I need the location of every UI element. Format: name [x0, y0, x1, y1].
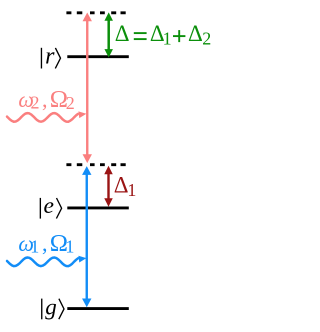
label |r> : right angle bracket	[55, 48, 60, 69]
green total detuning double arrow	[104, 12, 113, 57]
svg-text:Δ: Δ	[115, 21, 130, 46]
pink two-photon transition double arrow (omega2 beam)	[83, 13, 92, 164]
label |g> : ket bar	[41, 299, 43, 320]
svg-text:,: ,	[42, 231, 48, 256]
label |e> : right angle bracket	[56, 198, 61, 219]
blue wavy photon line omega1	[7, 258, 78, 267]
blue wavy arrowhead	[78, 256, 86, 263]
svg-text:2: 2	[66, 93, 75, 113]
svg-text:e: e	[44, 193, 54, 219]
level |g> line	[67, 307, 129, 310]
label Delta1 (dark red)	[114, 172, 137, 200]
pink wavy photon line omega2	[7, 113, 78, 122]
svg-text:1: 1	[127, 180, 136, 200]
label Delta = Delta1 + Delta2 (green)	[115, 21, 212, 49]
svg-text:2: 2	[31, 93, 40, 113]
svg-text:g: g	[45, 294, 57, 319]
svg-text:Δ: Δ	[188, 21, 203, 46]
dark red Delta1 detuning double arrow	[104, 166, 113, 207]
label |e> : ket bar	[39, 198, 41, 219]
label |r> : ket bar	[40, 48, 42, 69]
blue transition double arrow (omega1 beam)	[82, 166, 91, 307]
virtual level: top dashed line	[66, 11, 125, 14]
intermediate virtual level: middle dashed line	[66, 163, 125, 166]
label omega1, Omega1 (blue)	[18, 230, 74, 257]
svg-text:r: r	[45, 44, 55, 70]
svg-text:2: 2	[202, 29, 211, 49]
svg-text:1: 1	[30, 236, 39, 256]
svg-text:1: 1	[65, 237, 74, 257]
level |r> line	[67, 55, 129, 58]
level |e> line	[67, 206, 129, 209]
label |g> : right angle bracket	[59, 299, 64, 320]
pink wavy arrowhead	[78, 111, 86, 118]
svg-text:1: 1	[163, 29, 172, 49]
svg-text:,: ,	[42, 87, 48, 112]
svg-text:Δ: Δ	[114, 172, 129, 197]
label omega2, Omega2 (pink)	[18, 86, 74, 113]
